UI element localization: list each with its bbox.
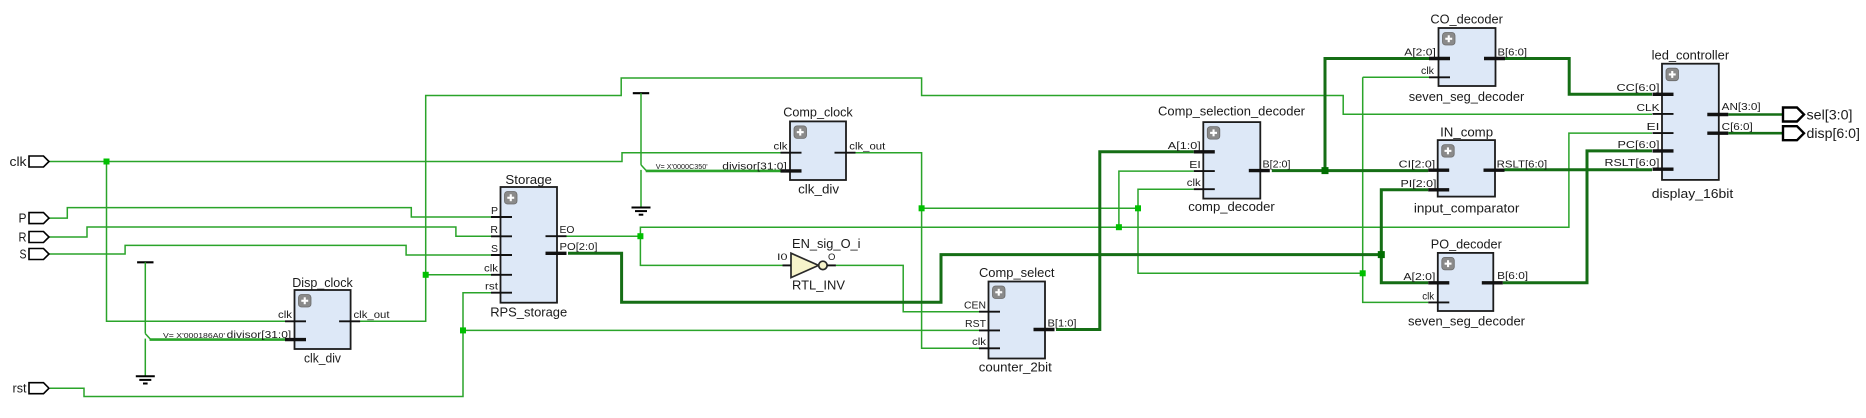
input port rst <box>13 382 50 396</box>
bus net RSLT[6:0]: IN_comp.RSLT to led_controller.RSLT <box>1505 168 1653 171</box>
bus net B[2:0]: comp_decoder B to IN_comp.CI and CO_decoder.A <box>1272 59 1429 171</box>
wire net S: port S to Storage.S <box>49 245 491 255</box>
svg-text:PI[2:0]: PI[2:0] <box>1401 178 1437 190</box>
svg-text:Storage: Storage <box>505 172 552 187</box>
svg-text:clk: clk <box>10 155 28 169</box>
svg-text:clk: clk <box>484 263 499 275</box>
svg-text:input_comparator: input_comparator <box>1414 201 1520 216</box>
junction node comp_clk-branch <box>919 205 925 211</box>
svg-text:A[2:0]: A[2:0] <box>1404 46 1436 58</box>
ground G1 (constant for Disp_clock divisor) <box>136 262 155 383</box>
svg-text:clk_div: clk_div <box>304 351 341 366</box>
svg-text:V= X'0000C350': V= X'0000C350' <box>656 162 709 171</box>
svg-text:CLK: CLK <box>1637 102 1660 114</box>
svg-text:comp_decoder: comp_decoder <box>1188 199 1275 214</box>
svg-text:seven_seg_decoder: seven_seg_decoder <box>1409 89 1525 104</box>
svg-text:B[1:0]: B[1:0] <box>1048 318 1077 330</box>
junction node comp_clk-1363 <box>1360 270 1366 276</box>
block U7 CO_decoder seven_seg_decoder <box>1404 12 1527 104</box>
svg-text:B[6:0]: B[6:0] <box>1497 270 1528 282</box>
svg-text:Comp_clock: Comp_clock <box>783 104 853 119</box>
svg-text:CI[2:0]: CI[2:0] <box>1399 158 1436 170</box>
inverter U4 RTL_INV EN_sig_O_i <box>777 236 861 292</box>
svg-text:seven_seg_decoder: seven_seg_decoder <box>1408 314 1526 329</box>
svg-text:A[2:0]: A[2:0] <box>1403 271 1435 283</box>
svg-text:Comp_select: Comp_select <box>979 265 1055 280</box>
svg-text:P: P <box>491 205 498 217</box>
block U5 Comp_select counter_2bit <box>964 265 1077 375</box>
svg-text:divisor[31:0]: divisor[31:0] <box>227 329 292 341</box>
svg-text:clk_div: clk_div <box>798 182 840 197</box>
svg-text:P: P <box>19 212 27 226</box>
svg-text:display_16bit: display_16bit <box>1652 186 1734 201</box>
input port R <box>19 231 50 245</box>
ground G2 (constant for Comp_clock divisor) <box>632 93 651 215</box>
svg-text:A[1:0]: A[1:0] <box>1168 140 1201 152</box>
block U6 Comp_selection_decoder comp_decoder <box>1158 104 1306 214</box>
block U8 IN_comp input_comparator <box>1399 124 1548 215</box>
bus net AN[3:0]: led_controller.AN to sel output port <box>1728 113 1783 116</box>
svg-text:CO_decoder: CO_decoder <box>1430 12 1503 27</box>
block U10 led_controller display_16bit <box>1605 48 1761 202</box>
junction node PO-split <box>1378 251 1385 258</box>
svg-text:clk: clk <box>972 336 987 348</box>
svg-text:PC[6:0]: PC[6:0] <box>1618 139 1660 151</box>
wire net EN_sig_O: inverter output to counter CEN <box>836 265 979 311</box>
svg-text:AN[3:0]: AN[3:0] <box>1722 101 1761 113</box>
block U9 PO_decoder seven_seg_decoder <box>1403 237 1528 329</box>
block U2 Storage RPS_storage <box>484 172 598 320</box>
svg-text:V= X'000186A0': V= X'000186A0' <box>163 331 226 340</box>
svg-text:clk_out: clk_out <box>354 309 390 321</box>
svg-text:EI: EI <box>1647 121 1660 133</box>
bus net PO[2:0]: Storage.PO to IN_comp.PI and PO_decoder.A <box>568 190 1428 302</box>
block U3 Comp_clock clk_div <box>656 104 886 196</box>
bus net B[1:0]: counter B to comp_decoder A[1:0] <box>1056 152 1194 330</box>
junction node EO-inv <box>637 233 643 239</box>
svg-text:I0: I0 <box>777 252 788 263</box>
wire net rst: port rst to Storage.rst and counter RST <box>50 293 979 397</box>
svg-text:C[6:0]: C[6:0] <box>1722 121 1753 133</box>
svg-text:B[2:0]: B[2:0] <box>1263 159 1291 171</box>
svg-text:clk: clk <box>1422 291 1435 303</box>
svg-text:led_controller: led_controller <box>1652 48 1730 63</box>
svg-text:RPS_storage: RPS_storage <box>490 305 567 320</box>
svg-text:RST: RST <box>965 318 987 330</box>
svg-text:Disp_clock: Disp_clock <box>292 275 353 290</box>
wire net R: port R to Storage.R <box>49 227 491 237</box>
svg-text:EI: EI <box>1189 159 1201 171</box>
svg-text:clk: clk <box>1187 177 1202 189</box>
junction node rst-RST <box>460 327 466 333</box>
bus net C[6:0]: led_controller.C to disp output port <box>1728 132 1783 135</box>
svg-text:rst: rst <box>485 281 498 293</box>
svg-text:R: R <box>19 231 27 245</box>
svg-text:sel[3:0]: sel[3:0] <box>1807 108 1853 123</box>
svg-text:O: O <box>828 252 835 263</box>
junction node comp_clk-1138 <box>1135 205 1141 211</box>
junction node clk <box>104 159 110 165</box>
svg-text:rst: rst <box>13 382 28 396</box>
svg-text:CC[6:0]: CC[6:0] <box>1617 82 1660 94</box>
input port P <box>19 212 50 226</box>
svg-text:EN_sig_O_i: EN_sig_O_i <box>792 236 861 251</box>
junction node EO-EI <box>1116 224 1122 230</box>
svg-text:S: S <box>491 243 498 255</box>
wire divisor constant to Comp_clock.divisor <box>646 170 781 173</box>
op-amp U1 Disp_clock clk_div <box>163 275 390 366</box>
wire divisor constant to Disp_clock.divisor <box>150 338 286 341</box>
input port clk <box>10 155 50 169</box>
svg-text:B[6:0]: B[6:0] <box>1498 46 1528 58</box>
svg-text:IN_comp: IN_comp <box>1440 124 1493 139</box>
wire net clk: port to junction, down to Disp_clock.clk, right to Comp_clock.clk <box>49 153 781 322</box>
svg-text:clk: clk <box>774 141 789 153</box>
input port S <box>20 248 50 262</box>
wire net P: port P to Storage.P <box>49 208 491 219</box>
svg-text:Comp_selection_decoder: Comp_selection_decoder <box>1158 104 1306 119</box>
wire net disp_clk: Disp_clock.clk_out up, across top, to led_controller.CLK; branch to Storage.clk <box>360 78 1652 321</box>
svg-text:RSLT[6:0]: RSLT[6:0] <box>1497 158 1548 170</box>
svg-text:S: S <box>20 248 27 262</box>
svg-text:PO[2:0]: PO[2:0] <box>560 241 598 253</box>
svg-text:divisor[31:0]: divisor[31:0] <box>722 160 787 172</box>
wire net EO: Storage.EO to inverter input, comp_decoder EI, led_controller EI <box>566 133 1652 265</box>
junction node B2-split <box>1322 167 1329 174</box>
svg-text:RSLT[6:0]: RSLT[6:0] <box>1605 157 1660 169</box>
svg-text:clk: clk <box>1421 65 1435 77</box>
output port sel[3:0] <box>1783 108 1853 123</box>
svg-text:disp[6:0]: disp[6:0] <box>1807 126 1861 141</box>
svg-text:counter_2bit: counter_2bit <box>979 360 1052 375</box>
svg-text:CEN: CEN <box>964 300 986 312</box>
bus net PO_B[6:0]: PO_decoder.B to led_controller.PC <box>1503 151 1652 283</box>
svg-text:EO: EO <box>560 224 575 236</box>
svg-text:R: R <box>490 224 498 236</box>
bus net CO_B[6:0]: CO_decoder.B to led_controller.CC <box>1505 59 1652 95</box>
junction node disp_clk-Storage.clk <box>423 272 429 278</box>
svg-text:clk_out: clk_out <box>849 141 885 153</box>
output port disp[6:0] <box>1783 126 1860 141</box>
wire net comp_clk: Comp_clock.clk_out down to counter clk; branches to comp_decoder clk, CO/PO decoder clk <box>856 77 1430 348</box>
svg-text:PO_decoder: PO_decoder <box>1431 237 1503 252</box>
svg-text:RTL_INV: RTL_INV <box>792 277 845 292</box>
svg-text:clk: clk <box>278 309 293 321</box>
